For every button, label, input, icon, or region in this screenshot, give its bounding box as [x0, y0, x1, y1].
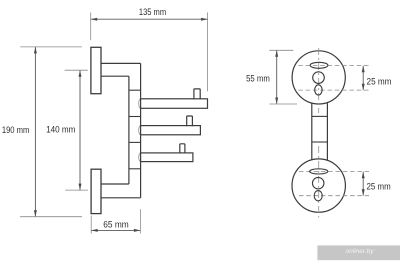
bottom rosette slot hole	[310, 169, 328, 174]
extension line 65 right	[139, 209, 141, 233]
hook arm 3 peg	[180, 144, 185, 154]
hook arm 1 knuckle arc	[139, 99, 141, 109]
extension line 135 right	[207, 12, 209, 91]
dimension 190 mm line	[34, 47, 36, 217]
svg-text:55 mm: 55 mm	[246, 74, 270, 84]
hook arm 2 body	[141, 126, 201, 135]
arrow 55 top	[275, 50, 278, 57]
arrow 135 left	[91, 18, 98, 21]
extension line 65 left	[90, 216, 92, 234]
bottom rosette middle hole	[312, 177, 324, 189]
connecting neck left edge	[311, 103, 313, 160]
neck joint line 1	[312, 115, 328, 117]
hook arm 2 peg	[187, 116, 193, 126]
post joint line 2	[129, 116, 141, 118]
dimension 135 mm line	[91, 18, 208, 20]
swivel post right edge	[140, 63, 142, 197]
dimension 140 mm line	[79, 70, 81, 190]
wall plate top	[91, 47, 101, 93]
extension tick 55 top	[269, 49, 293, 51]
front view vertical centerline upper	[318, 48, 320, 113]
top rosette lower oval hole	[315, 85, 322, 95]
watermark bar	[317, 245, 400, 260]
top rosette dashed hole centerline lower	[298, 89, 369, 91]
dimension 65 mm line	[91, 229, 140, 231]
top rosette slot hole	[310, 62, 328, 68]
wall plate bottom	[91, 169, 101, 213]
extension tick 140 bottom	[65, 189, 88, 191]
top mounting arm top edge	[101, 62, 141, 64]
hook arm 1 peg	[194, 89, 200, 100]
dimension 25 mm top line	[362, 66, 364, 91]
top mounting arm bottom edge	[101, 75, 129, 77]
extension line 135 left	[90, 12, 92, 40]
swivel post left edge	[128, 76, 130, 184]
arrow 190 top	[34, 47, 37, 54]
extension tick 55 bottom	[269, 103, 297, 105]
top rosette middle hole	[313, 72, 325, 84]
dimension 55 mm line	[276, 50, 278, 104]
svg-text:25 mm: 25 mm	[367, 181, 391, 191]
top rosette dashed hole centerline upper	[298, 64, 369, 66]
front view bottom rosette circle	[292, 159, 345, 212]
dimension 25 mm bottom line	[362, 172, 364, 196]
svg-text:65 mm: 65 mm	[103, 219, 129, 229]
bottom rosette dashed hole centerline lower	[299, 195, 369, 197]
extension line 190 top	[20, 46, 82, 48]
arrow 65 right	[134, 229, 141, 232]
front view vertical centerline lower	[318, 146, 320, 218]
hook arm 2 knuckle arc	[139, 126, 141, 135]
post joint line 1	[129, 89, 141, 91]
post joint line 4	[129, 168, 141, 170]
svg-text:135 mm: 135 mm	[139, 7, 166, 17]
arrow 25 top lower	[362, 84, 365, 91]
arrow 65 left	[91, 229, 98, 232]
arrow 140 bottom	[79, 184, 82, 191]
arrow 25 bottom upper	[362, 172, 365, 179]
svg-text:140 mm: 140 mm	[46, 124, 76, 134]
bottom rosette lower oval hole	[314, 191, 322, 201]
svg-text:25 mm: 25 mm	[367, 76, 392, 86]
post joint line 3	[129, 141, 141, 143]
arrow 25 top upper	[362, 66, 365, 73]
neck joint line 2	[312, 141, 328, 143]
svg-text:onliner.by: onliner.by	[346, 248, 375, 255]
arrow 135 right	[201, 18, 208, 21]
arrow 190 bottom	[34, 210, 37, 217]
arrow 140 top	[79, 70, 82, 77]
arrow 55 bottom	[275, 98, 278, 105]
bottom mounting arm top edge	[101, 183, 129, 185]
svg-text:190 mm: 190 mm	[2, 125, 30, 135]
hook arm 1 body	[141, 99, 208, 109]
hook arm 3 knuckle arc	[139, 153, 141, 162]
arrow 25 bottom lower	[362, 189, 365, 196]
extension tick 140 top	[65, 69, 88, 71]
front view top rosette circle	[292, 51, 345, 104]
bottom rosette dashed hole centerline upper	[299, 171, 369, 173]
connecting neck right edge	[326, 103, 328, 160]
bottom mounting arm bottom edge	[101, 197, 141, 199]
extension line 190 bottom	[20, 216, 82, 218]
hook arm 3 body	[141, 153, 193, 162]
